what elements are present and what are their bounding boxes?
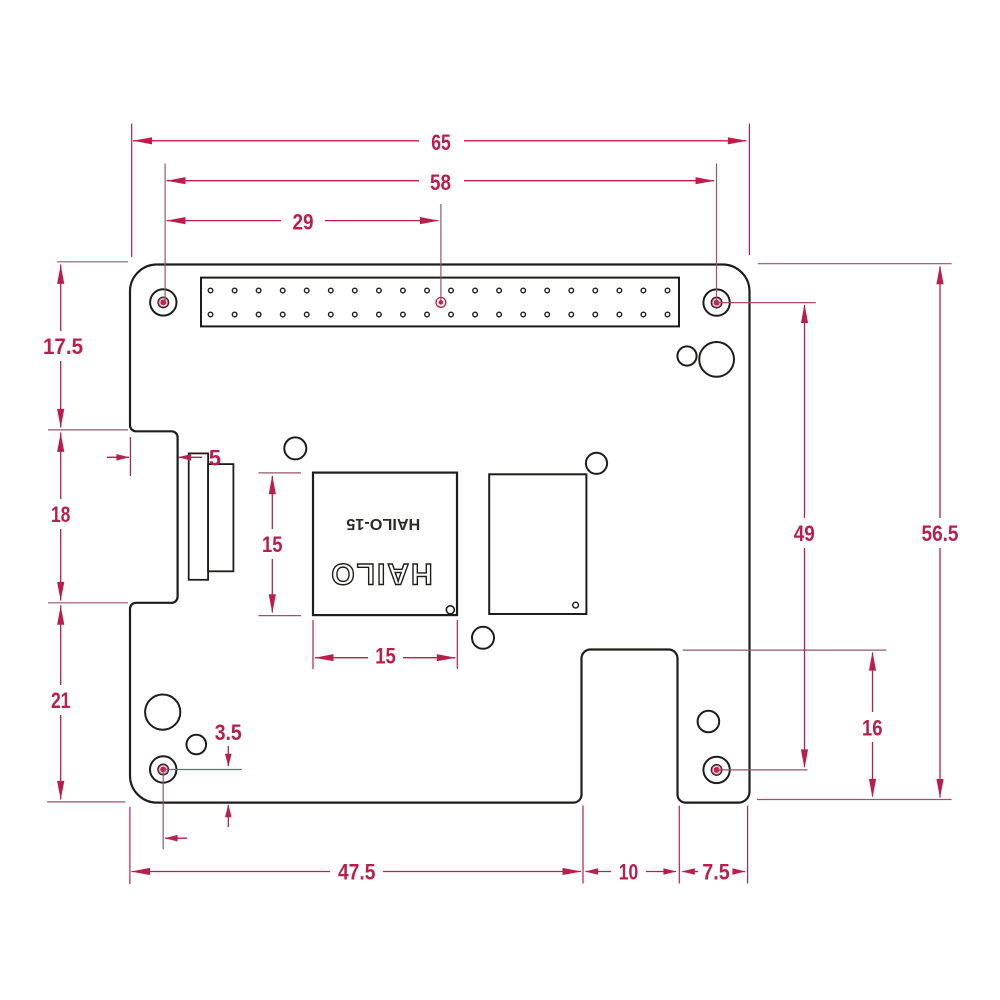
svg-text:HAILO: HAILO xyxy=(329,557,432,590)
extension line 65 right xyxy=(748,124,750,255)
circle right of second chip xyxy=(586,453,607,474)
circle small bottom-left xyxy=(187,735,207,755)
board outline xyxy=(130,265,750,803)
svg-text:15: 15 xyxy=(262,532,283,557)
extension line 58 left (to TL hole) xyxy=(164,164,166,303)
second chip U2 xyxy=(489,474,586,614)
svg-text:5: 5 xyxy=(209,445,221,470)
dimension 58 xyxy=(167,180,715,182)
dimension 49 xyxy=(804,305,806,767)
circle small near top-right hole xyxy=(677,346,696,365)
dimension 5 (left indent) xyxy=(129,437,131,476)
dimension 65 xyxy=(133,140,746,142)
chip bottom tick xyxy=(259,615,302,617)
svg-text:17.5: 17.5 xyxy=(43,334,83,359)
dimension 3.5 horizontal arrow xyxy=(165,837,187,839)
15 horizontal extension right xyxy=(456,620,458,669)
chip top tick xyxy=(259,472,302,474)
dimension 15 vertical xyxy=(271,476,273,613)
svg-text:15: 15 xyxy=(375,644,396,669)
extension line 65 left xyxy=(131,124,133,257)
extension line 29 right (to header center) xyxy=(440,204,442,302)
right ticks xyxy=(758,263,952,265)
HAILO chip pin1 dot xyxy=(446,606,454,614)
bottom extension lines xyxy=(129,807,131,884)
mounting hole top-left xyxy=(150,289,176,315)
dimension 7.5 xyxy=(682,871,745,873)
left ticks xyxy=(57,261,128,263)
circle large near top-right hole xyxy=(699,342,734,377)
GPIO header outline xyxy=(201,278,679,327)
svg-text:16: 16 xyxy=(862,715,883,740)
circle on bottom-right tab xyxy=(698,711,720,733)
HAILO chip U1 xyxy=(313,473,457,615)
BR hole horizontal center line xyxy=(717,769,808,771)
GPIO pins row 2 xyxy=(208,312,670,317)
dimension 15 horizontal xyxy=(315,657,455,659)
svg-text:29: 29 xyxy=(293,210,314,235)
dimension 18 xyxy=(60,433,62,601)
dimension 17.5 xyxy=(60,265,62,428)
circle large bottom-left xyxy=(145,695,180,730)
dimension 56.5 xyxy=(939,267,941,798)
second chip pin1 dot xyxy=(573,602,579,608)
svg-text:18: 18 xyxy=(51,502,71,527)
BL hole vertical center line xyxy=(162,770,164,850)
extension line 58 right (to TR hole) xyxy=(716,164,718,303)
dimension 21 xyxy=(60,605,62,799)
camera connector wide rect xyxy=(208,464,233,571)
dimension 47.5 xyxy=(132,871,582,873)
BL hole horizontal center line xyxy=(163,769,242,771)
GPIO pins row 1 xyxy=(208,288,670,293)
15 horizontal extension left xyxy=(312,620,314,669)
svg-text:3.5: 3.5 xyxy=(215,720,242,745)
circle left of chip xyxy=(284,437,306,459)
svg-text:58: 58 xyxy=(430,170,451,195)
svg-text:65: 65 xyxy=(431,130,451,155)
mounting hole top-right xyxy=(703,289,729,315)
svg-text:21: 21 xyxy=(51,688,71,713)
svg-text:47.5: 47.5 xyxy=(338,859,376,884)
svg-text:49: 49 xyxy=(794,521,815,546)
mounting hole bottom-left xyxy=(150,756,176,782)
dimension 10 xyxy=(586,871,677,873)
svg-text:10: 10 xyxy=(619,860,639,885)
camera connector narrow rect xyxy=(189,453,208,579)
svg-text:7.5: 7.5 xyxy=(702,860,730,885)
circle below chips xyxy=(472,627,494,649)
svg-text:HAILO-15: HAILO-15 xyxy=(346,515,420,532)
mounting hole bottom-right xyxy=(703,757,729,783)
dimension 29 xyxy=(167,220,439,222)
dimension 16 xyxy=(872,653,874,797)
TR hole horizontal center line xyxy=(717,302,816,304)
svg-text:56.5: 56.5 xyxy=(922,521,959,546)
header center marker xyxy=(436,298,446,308)
